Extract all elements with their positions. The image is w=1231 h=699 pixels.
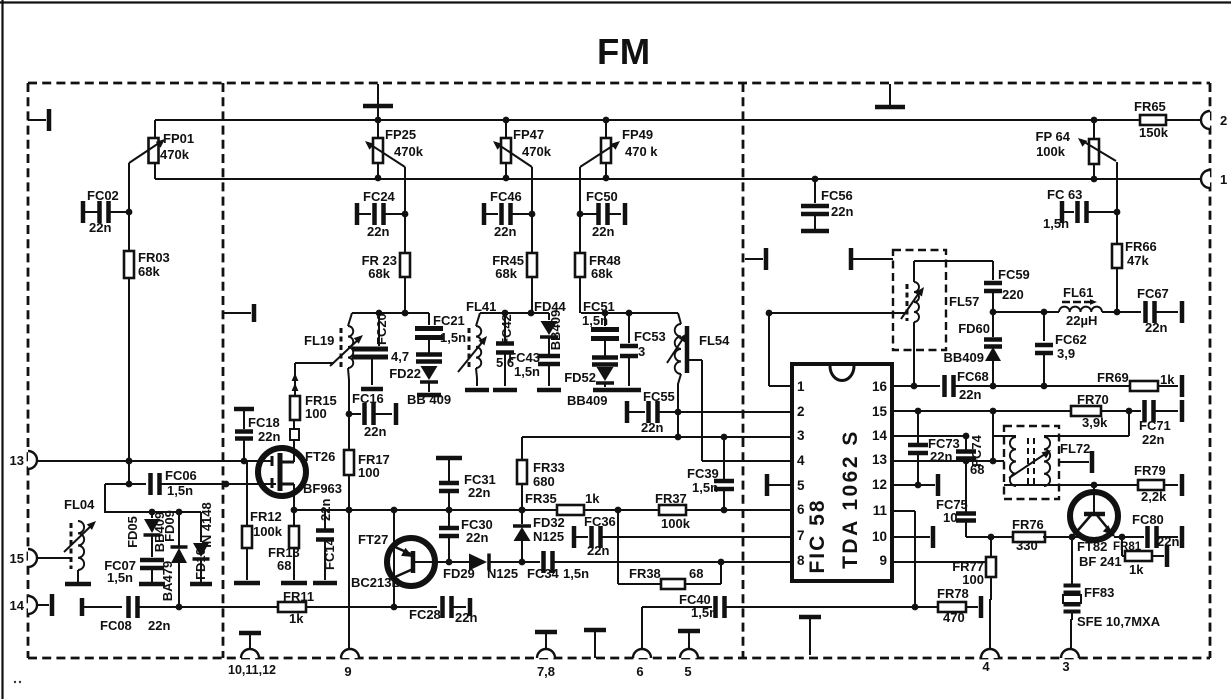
svg-text:FR12: FR12 xyxy=(250,509,282,524)
svg-text:FR03: FR03 xyxy=(138,250,170,265)
svg-text:FD10: FD10 xyxy=(193,548,208,580)
svg-text:BF963: BF963 xyxy=(303,481,342,496)
svg-text:FC08: FC08 xyxy=(100,618,132,633)
svg-text:22n: 22n xyxy=(148,618,170,633)
svg-text:9: 9 xyxy=(344,664,351,679)
svg-text:470: 470 xyxy=(943,610,965,625)
svg-text:1: 1 xyxy=(797,379,805,394)
svg-text:4: 4 xyxy=(797,453,805,468)
svg-text:5: 5 xyxy=(684,664,691,679)
svg-text:FR79: FR79 xyxy=(1134,463,1166,478)
svg-text:FC18: FC18 xyxy=(248,415,280,430)
svg-text:7: 7 xyxy=(797,528,805,543)
svg-text:3,9k: 3,9k xyxy=(1082,415,1108,430)
svg-text:FP 64: FP 64 xyxy=(1036,129,1071,144)
svg-text:6: 6 xyxy=(797,502,805,517)
svg-text:FC14: FC14 xyxy=(322,537,337,570)
svg-text:22n: 22n xyxy=(587,543,609,558)
svg-text:22µH: 22µH xyxy=(1066,313,1097,328)
svg-text:1,5n: 1,5n xyxy=(167,483,193,498)
svg-text:FC67: FC67 xyxy=(1137,286,1169,301)
svg-text:FR70: FR70 xyxy=(1077,392,1109,407)
svg-text:FR69: FR69 xyxy=(1097,370,1129,385)
svg-text:16: 16 xyxy=(872,379,888,394)
svg-text:22n: 22n xyxy=(367,224,389,239)
svg-text:1,5n: 1,5n xyxy=(582,313,608,328)
svg-text:FL41: FL41 xyxy=(466,299,496,314)
svg-text:FD60: FD60 xyxy=(958,321,990,336)
svg-text:FD29: FD29 xyxy=(443,566,475,581)
svg-text:N125: N125 xyxy=(487,566,518,581)
svg-text:3: 3 xyxy=(797,428,805,443)
svg-text:6: 6 xyxy=(636,664,643,679)
svg-text:FC43: FC43 xyxy=(508,350,540,365)
svg-text:2,2k: 2,2k xyxy=(1141,489,1167,504)
svg-text:IN 4148: IN 4148 xyxy=(199,502,214,548)
svg-text:22n: 22n xyxy=(466,530,488,545)
svg-text:BB409: BB409 xyxy=(548,310,563,350)
svg-text:22n: 22n xyxy=(959,387,981,402)
svg-text:FD32: FD32 xyxy=(533,515,565,530)
svg-text:1,5n: 1,5n xyxy=(514,364,540,379)
svg-text:1: 1 xyxy=(1220,172,1227,187)
svg-text:4,7: 4,7 xyxy=(391,349,409,364)
svg-text:FL72: FL72 xyxy=(1060,441,1090,456)
svg-text:BC213B: BC213B xyxy=(351,575,401,590)
svg-text:22n: 22n xyxy=(455,610,477,625)
svg-text:2: 2 xyxy=(797,404,805,419)
svg-text:FD22: FD22 xyxy=(389,366,421,381)
svg-text:3,9: 3,9 xyxy=(1057,346,1075,361)
svg-text:15: 15 xyxy=(872,404,888,419)
svg-text:FC50: FC50 xyxy=(586,189,618,204)
svg-text:22n: 22n xyxy=(592,224,614,239)
svg-text:1k: 1k xyxy=(1129,562,1144,577)
svg-text:4: 4 xyxy=(982,659,990,674)
svg-text:FC36: FC36 xyxy=(584,514,616,529)
svg-text:FD09: FD09 xyxy=(162,510,177,542)
svg-text:9: 9 xyxy=(879,553,887,568)
svg-text:470k: 470k xyxy=(522,144,552,159)
svg-text:14: 14 xyxy=(10,598,25,613)
svg-text:FC62: FC62 xyxy=(1055,332,1087,347)
svg-text:FC51: FC51 xyxy=(583,299,615,314)
svg-text:FL19: FL19 xyxy=(304,333,334,348)
svg-text:FR65: FR65 xyxy=(1134,99,1166,114)
svg-text:BB409: BB409 xyxy=(944,350,984,365)
svg-text:22n: 22n xyxy=(468,485,490,500)
svg-text:FC53: FC53 xyxy=(634,329,666,344)
svg-text:FC21: FC21 xyxy=(433,313,465,328)
svg-text:1k: 1k xyxy=(585,491,600,506)
svg-text:FR38: FR38 xyxy=(629,566,661,581)
svg-text:FR11: FR11 xyxy=(283,589,314,604)
svg-text:1,5n: 1,5n xyxy=(692,480,718,495)
svg-text:68k: 68k xyxy=(138,264,160,279)
svg-text:100k: 100k xyxy=(1036,144,1066,159)
svg-text:470k: 470k xyxy=(394,144,424,159)
svg-text:FC59: FC59 xyxy=(998,267,1030,282)
svg-text:FP25: FP25 xyxy=(385,127,416,142)
svg-text:14: 14 xyxy=(872,428,888,443)
svg-text:FD05: FD05 xyxy=(125,516,140,548)
svg-text:FR35: FR35 xyxy=(525,491,557,506)
svg-text:FR81: FR81 xyxy=(1113,541,1142,553)
svg-text:FC24: FC24 xyxy=(363,189,396,204)
svg-text:FL57: FL57 xyxy=(949,294,979,309)
svg-text:68: 68 xyxy=(689,566,703,581)
svg-text:1,5n: 1,5n xyxy=(691,605,717,620)
svg-text:FR76: FR76 xyxy=(1012,517,1044,532)
svg-text:FT27: FT27 xyxy=(358,532,388,547)
svg-text:FL54: FL54 xyxy=(699,333,730,348)
svg-text:FP47: FP47 xyxy=(513,127,544,142)
svg-text:220: 220 xyxy=(1002,287,1024,302)
svg-text:FD52: FD52 xyxy=(564,370,596,385)
svg-text:100k: 100k xyxy=(253,524,283,539)
svg-text:100k: 100k xyxy=(661,516,691,531)
svg-text:FC06: FC06 xyxy=(165,468,197,483)
svg-text:FC55: FC55 xyxy=(643,389,675,404)
svg-text:FC42: FC42 xyxy=(499,314,514,346)
svg-text:22n: 22n xyxy=(364,424,386,439)
svg-text:68: 68 xyxy=(970,462,984,477)
svg-text:FP01: FP01 xyxy=(163,131,194,146)
svg-text:68k: 68k xyxy=(591,266,613,281)
svg-text:22n: 22n xyxy=(641,420,663,435)
svg-text:100: 100 xyxy=(358,465,380,480)
svg-text:FC28: FC28 xyxy=(409,607,441,622)
svg-text:15: 15 xyxy=(10,551,24,566)
svg-text:FP49: FP49 xyxy=(622,127,653,142)
svg-text:680: 680 xyxy=(533,474,555,489)
svg-text:12: 12 xyxy=(872,477,887,492)
svg-text:FC20: FC20 xyxy=(374,313,389,345)
svg-text:FR33: FR33 xyxy=(533,460,565,475)
svg-text:N125: N125 xyxy=(533,529,564,544)
svg-text:FM: FM xyxy=(597,31,651,72)
svg-text:1,5n: 1,5n xyxy=(440,330,466,345)
svg-text:1,5n: 1,5n xyxy=(1043,216,1069,231)
svg-text:7,8: 7,8 xyxy=(537,664,555,679)
svg-text:47k: 47k xyxy=(1127,253,1149,268)
svg-text:1,5n: 1,5n xyxy=(563,566,589,581)
svg-text:10: 10 xyxy=(943,510,957,525)
svg-text:FC16: FC16 xyxy=(352,391,384,406)
svg-text:22n: 22n xyxy=(318,499,333,521)
svg-text:11: 11 xyxy=(873,503,888,518)
svg-text:1k: 1k xyxy=(1160,372,1175,387)
svg-text:FIC 58: FIC 58 xyxy=(806,498,829,573)
svg-text:22n: 22n xyxy=(1145,320,1167,335)
svg-text:22n: 22n xyxy=(494,224,516,239)
svg-text:FT82: FT82 xyxy=(1077,539,1107,554)
svg-text:FC68: FC68 xyxy=(957,369,989,384)
svg-text:22n: 22n xyxy=(930,449,952,464)
svg-text:FC34: FC34 xyxy=(527,566,560,581)
svg-text:5: 5 xyxy=(797,478,805,493)
svg-text:FC02: FC02 xyxy=(87,188,119,203)
svg-text:13: 13 xyxy=(10,453,24,468)
svg-text:150k: 150k xyxy=(1139,125,1169,140)
svg-text:BB409: BB409 xyxy=(567,393,607,408)
svg-text:68: 68 xyxy=(277,558,291,573)
svg-text:1,5n: 1,5n xyxy=(107,570,133,585)
svg-text:FR66: FR66 xyxy=(1125,239,1157,254)
svg-text:10,11,12: 10,11,12 xyxy=(228,663,276,677)
svg-text:470k: 470k xyxy=(160,147,190,162)
svg-text:FR37: FR37 xyxy=(655,491,687,506)
svg-text:1k: 1k xyxy=(289,611,304,626)
svg-text:FR78: FR78 xyxy=(937,586,969,601)
svg-text:2: 2 xyxy=(1220,113,1227,128)
svg-text:FT26: FT26 xyxy=(305,449,335,464)
svg-text:FC39: FC39 xyxy=(687,466,719,481)
svg-text:330: 330 xyxy=(1016,538,1038,553)
svg-text:68k: 68k xyxy=(495,266,517,281)
svg-text:13: 13 xyxy=(872,452,888,467)
svg-text:3: 3 xyxy=(638,344,645,359)
svg-text:22n: 22n xyxy=(831,204,853,219)
svg-text:22n: 22n xyxy=(258,429,280,444)
svg-text:FL61: FL61 xyxy=(1063,285,1093,300)
svg-text:TDA 1062 S: TDA 1062 S xyxy=(839,429,862,569)
svg-text:FC46: FC46 xyxy=(490,189,522,204)
svg-text:SFE 10,7MXA: SFE 10,7MXA xyxy=(1077,614,1161,629)
svg-text:22n: 22n xyxy=(89,220,111,235)
svg-text:100: 100 xyxy=(962,572,984,587)
svg-text:10: 10 xyxy=(872,529,887,544)
svg-text:BA479: BA479 xyxy=(160,561,175,601)
svg-text:BF 241: BF 241 xyxy=(1079,554,1122,569)
svg-text:FC71: FC71 xyxy=(1139,418,1171,433)
svg-text:FC 63: FC 63 xyxy=(1047,187,1082,202)
svg-text:FL04: FL04 xyxy=(64,497,95,512)
svg-text:100: 100 xyxy=(305,406,327,421)
svg-text:68k: 68k xyxy=(368,266,390,281)
svg-text:22n: 22n xyxy=(1142,432,1164,447)
svg-text:FC80: FC80 xyxy=(1132,512,1164,527)
svg-text:8: 8 xyxy=(797,553,805,568)
svg-text:3: 3 xyxy=(1062,659,1069,674)
svg-text:BB 409: BB 409 xyxy=(407,392,451,407)
svg-text:FF83: FF83 xyxy=(1084,585,1114,600)
svg-text:470 k: 470 k xyxy=(625,144,658,159)
svg-text:FC56: FC56 xyxy=(821,188,853,203)
